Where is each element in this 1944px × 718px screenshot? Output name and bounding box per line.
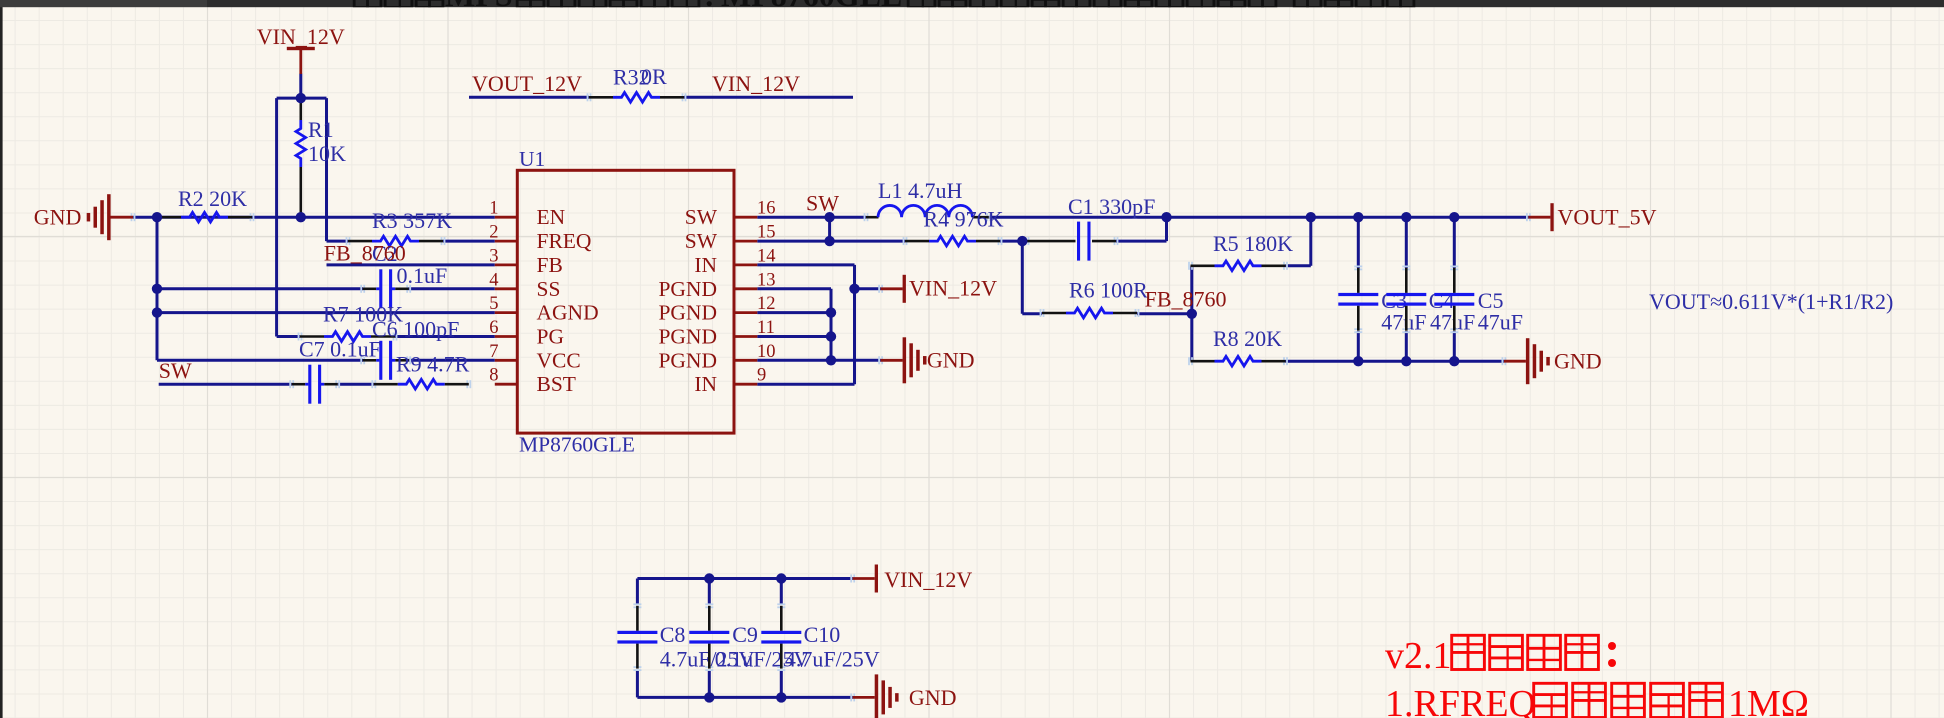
pin 8 BST	[489, 366, 576, 397]
svg-text:VCC: VCC	[537, 348, 581, 372]
revision note line 2	[1385, 683, 1809, 718]
wire R32 to VIN_12V	[684, 96, 853, 99]
svg-text:10K: 10K	[308, 141, 346, 166]
wire R5 to corner	[1286, 264, 1311, 267]
svg-text:VIN_12V: VIN_12V	[257, 24, 345, 49]
svg-text:C10: C10	[804, 622, 841, 647]
node junction (300.8,217.2)	[296, 212, 306, 222]
node junction (709.3,697.4)	[704, 692, 714, 702]
node junction (831,360.3)	[826, 355, 836, 365]
node junction (1166.5,217.2)	[1161, 212, 1171, 222]
svg-text:47uF: 47uF	[1478, 310, 1523, 335]
power port VOUT_5V	[1527, 203, 1657, 231]
node junction (831,336.5)	[826, 331, 836, 341]
wire VOUT_12V to R32	[469, 96, 589, 99]
node junction (831,312.6)	[826, 307, 836, 317]
svg-text:5: 5	[489, 294, 498, 314]
pin 1 EN	[489, 199, 565, 230]
svg-text:v2.1: v2.1	[1385, 635, 1452, 677]
svg-text:AGND: AGND	[537, 301, 599, 325]
pin 5 AGND	[489, 294, 598, 325]
svg-text:BST: BST	[537, 372, 576, 396]
svg-text:9: 9	[757, 366, 766, 386]
resistor R7	[299, 302, 404, 342]
wire pin14 IN	[757, 263, 854, 266]
svg-text:VOUT≈0.611V*(1+R1/R2): VOUT≈0.611V*(1+R1/R2)	[1649, 289, 1893, 314]
wire bottom cap branch x=637.4	[636, 579, 639, 605]
svg-text:0.1uF: 0.1uF	[397, 263, 448, 288]
wire BST/SW	[159, 383, 292, 386]
svg-text:IN: IN	[694, 253, 717, 277]
pin 11 PGND	[658, 318, 774, 349]
ground GND left	[34, 194, 135, 240]
svg-text:SW: SW	[685, 205, 718, 229]
svg-text:FREQ: FREQ	[537, 229, 592, 253]
svg-text:R9 4.7R: R9 4.7R	[396, 352, 470, 377]
capacitor C10	[761, 604, 879, 671]
capacitor C7	[290, 337, 381, 404]
svg-text:R1: R1	[308, 117, 334, 142]
capacitor C8	[617, 604, 754, 671]
power port VIN_12V top	[257, 24, 345, 74]
svg-text:R3 357K: R3 357K	[372, 208, 452, 233]
svg-text:L1 4.7uH: L1 4.7uH	[878, 178, 962, 203]
node junction (300.8,98.1)	[296, 93, 306, 103]
wire FB vertical	[1190, 266, 1193, 361]
pin 13 PGND	[658, 270, 775, 301]
svg-text:47uF: 47uF	[1381, 310, 1426, 335]
wire bottom VIN rail	[637, 577, 852, 580]
pin 2 FREQ	[489, 223, 592, 254]
svg-text:IN: IN	[694, 372, 717, 396]
svg-text:8: 8	[489, 366, 498, 386]
svg-text:MP8760GLE: MP8760GLE	[519, 433, 635, 457]
pin 3 FB	[489, 246, 563, 277]
wire SW pin15	[757, 240, 905, 243]
svg-text:PGND: PGND	[658, 325, 717, 349]
svg-text:PGND: PGND	[658, 348, 717, 372]
node junction (829.6,217.2)	[824, 212, 834, 222]
svg-text:VOUT_12V: VOUT_12V	[472, 71, 582, 96]
svg-text:4: 4	[489, 270, 498, 290]
capacitor C6	[361, 317, 459, 380]
wire IN node to VIN port	[855, 287, 881, 290]
svg-text:1: 1	[489, 199, 498, 219]
node junction (1406.3,217.2)	[1401, 212, 1411, 222]
node junction (854.5,288.8)	[849, 284, 859, 294]
pin 4 SS	[489, 270, 560, 301]
svg-text:1MΩ: 1MΩ	[1728, 683, 1809, 718]
wire pin9 IN	[757, 383, 854, 386]
wire cap branch x=1406.3	[1405, 217, 1408, 268]
svg-text:VIN_12V: VIN_12V	[909, 276, 997, 301]
svg-text:SW: SW	[806, 191, 839, 216]
resistor R3	[347, 208, 453, 246]
svg-text:SW: SW	[685, 229, 718, 253]
svg-text:PGND: PGND	[658, 277, 717, 301]
wire VIN to PG vertical	[275, 98, 278, 336]
svg-text:C1 330pF: C1 330pF	[1068, 194, 1155, 219]
svg-text:15: 15	[757, 223, 776, 243]
wire FB	[327, 263, 495, 266]
wire bottom cap branch x=709.3	[708, 579, 711, 605]
wire R4 to C1 node	[1000, 240, 1027, 243]
svg-text:VIN_12V: VIN_12V	[884, 567, 972, 592]
node junction (1022.3,241.1)	[1017, 236, 1027, 246]
svg-text:GND: GND	[909, 685, 957, 710]
wire VIN top horizontal	[277, 97, 327, 100]
node junction (781.3,697.4)	[776, 692, 786, 702]
svg-text:7: 7	[489, 342, 498, 362]
pin 12 PGND	[658, 294, 775, 325]
svg-text:R6 100R: R6 100R	[1069, 278, 1148, 303]
svg-text:1.RFREQ: 1.RFREQ	[1385, 683, 1536, 718]
resistor R8	[1189, 326, 1287, 366]
node junction (781.3,578.5)	[776, 573, 786, 583]
svg-text:C7 0.1uF: C7 0.1uF	[299, 337, 381, 362]
node junction (709.3,578.5)	[704, 573, 714, 583]
svg-text:PGND: PGND	[658, 301, 717, 325]
resistor R9	[372, 352, 470, 390]
svg-text:13: 13	[757, 270, 776, 290]
wire GND vertical left	[156, 217, 159, 360]
svg-text:11: 11	[757, 318, 775, 338]
node junction (829.6,241.1)	[824, 236, 834, 246]
wire PGND vertical	[830, 289, 833, 361]
pin 14 IN	[694, 246, 775, 277]
svg-text:16: 16	[757, 199, 776, 219]
title bar	[0, 0, 207, 7]
node junction (157,312.6)	[152, 307, 162, 317]
svg-text:6: 6	[489, 318, 498, 338]
power port VIN_12V bottom	[851, 565, 972, 593]
svg-text:R2 20K: R2 20K	[178, 186, 247, 211]
resistor R5	[1189, 231, 1293, 271]
svg-text:R5 180K: R5 180K	[1213, 231, 1293, 256]
wire R8 output bottom	[1286, 360, 1504, 363]
ground GND mid-right	[879, 337, 974, 383]
wire FREQ vertical	[325, 98, 328, 241]
ground GND bottom	[851, 674, 956, 718]
svg-text:GND: GND	[927, 347, 975, 372]
node junction (1454.3,217.2)	[1449, 212, 1459, 222]
wire AGND	[157, 311, 495, 314]
wire SW pin16	[757, 216, 866, 219]
svg-text:R8 20K: R8 20K	[1213, 326, 1282, 351]
svg-text:SS: SS	[537, 277, 561, 301]
node junction (1191.8,313.8)	[1187, 309, 1197, 319]
wire pin12 PGND	[757, 311, 831, 314]
inductor L1	[865, 178, 991, 221]
svg-text:10: 10	[757, 342, 776, 362]
svg-text:0R: 0R	[641, 64, 667, 89]
svg-text:FB: FB	[537, 253, 563, 277]
capacitor C4	[1386, 266, 1475, 334]
capacitor C1	[1026, 194, 1156, 261]
svg-text:FB_8760: FB_8760	[324, 241, 406, 266]
svg-text:C8: C8	[660, 622, 686, 647]
svg-text:12: 12	[757, 294, 776, 314]
wire pin10 PGND to GND	[757, 359, 880, 362]
capacitor C9	[689, 604, 809, 671]
wire L1 to output	[989, 216, 1529, 219]
svg-text:U1: U1	[519, 147, 545, 171]
resistor R1	[296, 98, 346, 217]
capacitor C5	[1434, 266, 1523, 334]
op-amp U1 MP8760GLE body	[517, 170, 734, 433]
wire EN horizontal	[133, 216, 495, 219]
wire VCC	[157, 359, 363, 362]
resistor R4	[904, 207, 1004, 246]
svg-text:C6 100pF: C6 100pF	[372, 317, 459, 342]
pin 10 PGND	[658, 342, 775, 373]
pin 7 VCC	[489, 342, 580, 373]
capacitor C2	[361, 241, 447, 308]
svg-text:GND: GND	[1554, 349, 1602, 374]
wire C1 to corner	[1116, 240, 1167, 243]
svg-text:C9: C9	[732, 622, 758, 647]
svg-text:VOUT_5V: VOUT_5V	[1558, 205, 1657, 230]
resistor R2	[156, 186, 254, 222]
node junction (1310.8,217.2)	[1306, 212, 1316, 222]
resistor R6	[1041, 278, 1149, 318]
svg-text:SW: SW	[159, 358, 192, 383]
svg-text:2: 2	[489, 223, 498, 243]
wire bottom GND rail	[637, 696, 852, 699]
pin 16 SW	[685, 199, 776, 230]
wire pin11 PGND	[757, 335, 831, 338]
wire cap branch x=1454.3	[1453, 217, 1456, 268]
wire R6 line	[1022, 312, 1042, 315]
wire R5 corner vertical	[1309, 217, 1312, 266]
wire IN vertical	[853, 265, 856, 384]
resistor R32	[588, 64, 686, 102]
svg-text:GND: GND	[34, 205, 82, 230]
power port VIN_12V mid-right	[879, 275, 997, 303]
wire FREQ	[327, 240, 349, 243]
wire VIN power lead	[299, 74, 302, 99]
svg-text:3: 3	[489, 246, 498, 266]
node junction (157,288.8)	[152, 284, 162, 294]
wire SS	[157, 287, 363, 290]
revision note v2.1	[1385, 635, 1616, 677]
svg-text:R4 976K: R4 976K	[923, 207, 1003, 232]
node junction (1454.3,361.2)	[1449, 356, 1459, 366]
ground GND output	[1502, 338, 1601, 384]
pin 9 IN	[694, 366, 766, 397]
node junction (157,217.2)	[152, 212, 162, 222]
svg-text:FB_8760: FB_8760	[1145, 287, 1227, 312]
wire cap branch x=1358.3	[1357, 217, 1360, 268]
wire PG	[277, 335, 300, 338]
capacitor C3	[1338, 266, 1426, 334]
pin 15 SW	[685, 223, 776, 254]
svg-text:EN: EN	[537, 205, 566, 229]
wire node to R6 vertical	[1021, 241, 1024, 314]
svg-text:47uF: 47uF	[1430, 310, 1475, 335]
wire pin13 PGND	[757, 287, 831, 290]
pin 6 PG	[489, 318, 564, 349]
svg-text:14: 14	[757, 246, 776, 266]
wire bottom cap branch x=781.3	[780, 579, 783, 605]
wire C1 corner vertical	[1165, 217, 1168, 241]
svg-text:4.7uF/25V: 4.7uF/25V	[785, 647, 880, 672]
node junction (1358.3,217.2)	[1353, 212, 1363, 222]
svg-text:VIN_12V: VIN_12V	[712, 71, 800, 96]
wire SW vertical pins15-16	[828, 217, 831, 241]
svg-text:PG: PG	[537, 325, 564, 349]
node junction (1358.3,361.2)	[1353, 356, 1363, 366]
node junction (1406.3,361.2)	[1401, 356, 1411, 366]
